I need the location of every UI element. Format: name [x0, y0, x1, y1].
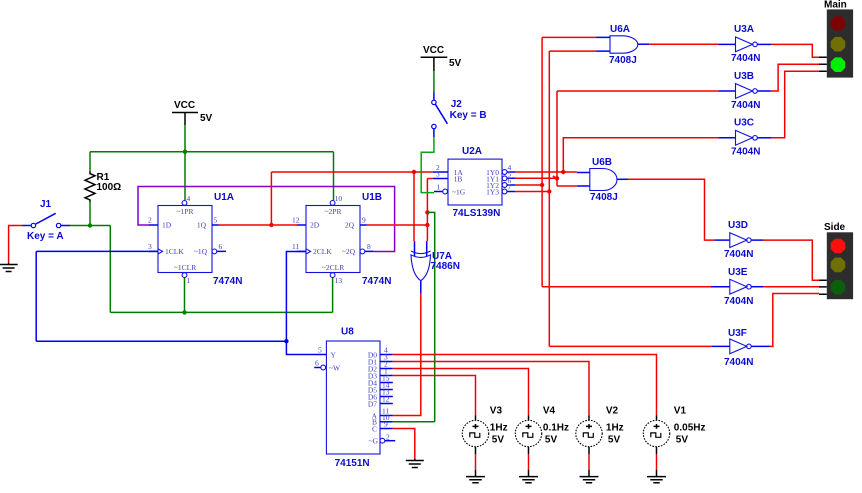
svg-text:7404N: 7404N: [731, 100, 760, 111]
and gate U6A: [597, 24, 650, 66]
wire 1Q net to 2D / 1A / XOR-A (red): [219, 172, 433, 241]
wire U3B to Main yellow lamp: [771, 64, 819, 91]
power VCC2 symbol: [421, 45, 462, 71]
wire J2 to ~1G (bright green): [421, 137, 434, 192]
traffic light Main: [819, 0, 853, 78]
ground at U8: [406, 459, 424, 468]
svg-text:5V: 5V: [492, 435, 505, 446]
svg-text:~1PR: ~1PR: [177, 207, 194, 216]
svg-text:U2A: U2A: [462, 146, 482, 157]
wire 2Q net to 1B / XOR-B (red): [367, 179, 433, 242]
svg-text:7404N: 7404N: [724, 296, 753, 307]
svg-text:1D: 1D: [162, 221, 172, 230]
wire U3D to Side red lamp: [763, 240, 819, 280]
svg-text:7474N: 7474N: [213, 276, 242, 287]
svg-text:~1CLR: ~1CLR: [174, 263, 196, 272]
svg-text:Y: Y: [331, 350, 337, 359]
node B-select branch junction: [425, 210, 429, 214]
wire U6A out to U3A (red): [649, 43, 718, 45]
svg-text:VCC: VCC: [423, 45, 444, 56]
svg-text:5V: 5V: [676, 435, 689, 446]
svg-text:5: 5: [318, 346, 322, 355]
svg-text:~G: ~G: [369, 437, 379, 446]
svg-text:0.1Hz: 0.1Hz: [543, 423, 569, 434]
svg-text:U3E: U3E: [728, 267, 748, 278]
svg-text:~1G: ~1G: [452, 187, 466, 196]
svg-text:1CLK: 1CLK: [165, 247, 184, 256]
inverter U3C: [718, 118, 771, 158]
svg-text:6: 6: [219, 242, 223, 251]
wire R1 bottom to J1 node (green): [89, 201, 91, 226]
inverter U3F: [712, 328, 770, 368]
switch J2: [432, 92, 487, 137]
svg-text:U6B: U6B: [592, 157, 612, 168]
xor gate U7A: [411, 241, 460, 294]
svg-text:7408J: 7408J: [609, 55, 637, 66]
node 1Y3 junction: [547, 189, 551, 193]
wire U3F to Side green lamp: [770, 294, 820, 347]
flip-flop U1B body: [292, 192, 391, 287]
svg-text:U1B: U1B: [362, 192, 382, 203]
svg-text:7404N: 7404N: [724, 249, 753, 260]
power VCC1 symbol: [172, 100, 213, 125]
ground at J1: [0, 263, 18, 272]
svg-text:VCC: VCC: [174, 100, 195, 111]
svg-text:Side: Side: [824, 222, 846, 233]
clock source V2: [576, 406, 624, 483]
svg-text:12: 12: [292, 216, 300, 225]
wire 1Y2 net to U6A.in1 / U3E (red): [515, 37, 711, 286]
wire U6B out to U3D (red): [628, 179, 715, 240]
svg-text:13: 13: [335, 276, 343, 285]
wire J1 left to ground (red): [9, 226, 23, 263]
wire ~2Q to 1D (purple): [138, 187, 395, 252]
svg-text:U1A: U1A: [214, 192, 234, 203]
svg-text:U3B: U3B: [734, 71, 754, 82]
svg-text:5V: 5V: [545, 435, 558, 446]
wire U3A to Main red lamp: [771, 44, 819, 57]
wire VCC1 net (green): [90, 125, 334, 200]
svg-text:V1: V1: [674, 406, 687, 417]
svg-text:7404N: 7404N: [724, 357, 753, 368]
svg-text:J2: J2: [451, 99, 463, 110]
wire U3E to Side yellow lamp: [763, 286, 819, 288]
node 2Q junction: [425, 223, 429, 227]
svg-text:1Y3: 1Y3: [486, 187, 499, 196]
svg-text:6: 6: [315, 359, 319, 368]
svg-text:U8: U8: [341, 327, 354, 338]
svg-text:100Ω: 100Ω: [97, 182, 122, 193]
svg-text:7404N: 7404N: [731, 53, 760, 64]
wire D0 to V1 (red): [393, 355, 657, 416]
svg-text:5V: 5V: [200, 113, 213, 124]
svg-text:5V: 5V: [608, 435, 621, 446]
svg-text:2: 2: [386, 433, 390, 442]
wire 1Y1 jog: [553, 176, 557, 179]
svg-text:7486N: 7486N: [431, 261, 460, 272]
svg-text:9: 9: [362, 216, 366, 225]
svg-text:1: 1: [437, 183, 441, 192]
svg-text:5: 5: [214, 216, 218, 225]
clock source V4: [515, 406, 569, 483]
node 1Y1 junction: [555, 176, 559, 180]
decoder U2A body: [433, 146, 515, 219]
wire J1 right contact to clear net (green): [70, 226, 333, 313]
svg-text:Key = B: Key = B: [450, 110, 487, 121]
svg-text:7: 7: [508, 183, 512, 192]
svg-text:2: 2: [148, 216, 152, 225]
svg-text:2Q: 2Q: [345, 221, 355, 230]
flip-flop U1A body: [148, 192, 242, 287]
svg-text:~2Q: ~2Q: [342, 247, 356, 256]
svg-text:7408J: 7408J: [590, 192, 618, 203]
node VCC1 junction: [183, 150, 187, 154]
svg-text:4: 4: [187, 194, 191, 203]
svg-text:3: 3: [148, 242, 152, 251]
inverter U3B: [718, 71, 771, 111]
node 1Y0 junction: [561, 170, 565, 174]
svg-text:~1Q: ~1Q: [194, 247, 208, 256]
svg-text:Key = A: Key = A: [27, 231, 64, 242]
clock source V3: [462, 406, 507, 483]
svg-text:8: 8: [367, 242, 371, 251]
inverter U3A: [718, 24, 771, 64]
svg-text:74LS139N: 74LS139N: [453, 208, 501, 219]
svg-text:7404N: 7404N: [731, 147, 760, 158]
wire D1 to V2 (red): [393, 362, 589, 416]
svg-text:~2CLR: ~2CLR: [322, 263, 344, 272]
node Y feedback junction: [284, 339, 288, 343]
svg-text:V4: V4: [543, 406, 556, 417]
svg-text:~2PR: ~2PR: [325, 207, 342, 216]
svg-text:2D: 2D: [310, 221, 320, 230]
svg-text:V2: V2: [606, 406, 619, 417]
svg-text:~W: ~W: [329, 363, 341, 372]
inverter U3D: [715, 220, 763, 260]
node 1Y2 junction: [540, 183, 544, 187]
svg-text:10: 10: [335, 194, 343, 203]
resistor R1: [85, 171, 121, 202]
svg-text:74151N: 74151N: [335, 458, 370, 469]
wire 1Y1 net to U3B / U6B.in2 (red): [515, 91, 718, 186]
wire 1Y0 net to U6B.in1 / U3C (red): [515, 138, 718, 172]
svg-text:Main: Main: [824, 0, 847, 11]
node 1A-XOR junction: [412, 170, 416, 174]
wire XOR output to U8 pin A (red): [393, 294, 421, 416]
svg-text:J1: J1: [40, 199, 52, 210]
node 1Q-2D junction: [269, 223, 273, 227]
wire U3C to Main green lamp: [771, 71, 819, 138]
svg-text:1Hz: 1Hz: [606, 423, 624, 434]
wire 1CLK/2CLK feedback from U8 Y (blue): [36, 251, 326, 354]
wire VCC2 to J2 (green): [433, 71, 435, 92]
node R1/J1 junction: [88, 223, 92, 227]
inverter U3E: [711, 267, 763, 307]
node clear net junction: [182, 310, 186, 314]
svg-text:12: 12: [382, 395, 390, 404]
svg-text:9: 9: [384, 420, 388, 429]
svg-text:U3D: U3D: [728, 220, 748, 231]
svg-text:1: 1: [187, 276, 191, 285]
svg-text:1Q: 1Q: [197, 221, 207, 230]
svg-text:1Hz: 1Hz: [490, 423, 508, 434]
wire B select to U8 pin10 (dark green): [393, 212, 435, 421]
svg-text:2CLK: 2CLK: [313, 247, 332, 256]
wire D2 to V4 (red): [393, 369, 529, 416]
svg-text:U6A: U6A: [610, 24, 630, 35]
svg-text:D7: D7: [368, 399, 377, 408]
clock source V1: [643, 406, 705, 483]
wire 1Y3 net to U6A.in2 / U3F (red): [515, 51, 712, 346]
and gate U6B: [577, 157, 628, 203]
svg-text:U3A: U3A: [734, 24, 754, 35]
svg-text:1B: 1B: [454, 174, 463, 183]
svg-text:3: 3: [436, 170, 440, 179]
wire D3 to V3 (red): [393, 376, 476, 416]
multiplexer U8 body: [314, 327, 395, 470]
svg-text:U3C: U3C: [734, 118, 754, 129]
svg-text:0.05Hz: 0.05Hz: [674, 423, 706, 434]
svg-text:V3: V3: [490, 406, 503, 417]
svg-text:U3F: U3F: [728, 328, 747, 339]
svg-text:11: 11: [292, 242, 299, 251]
svg-text:5V: 5V: [449, 58, 462, 69]
svg-text:7474N: 7474N: [362, 276, 391, 287]
traffic light Side: [819, 222, 853, 299]
svg-text:C: C: [372, 424, 377, 433]
switch J1: [23, 199, 71, 242]
wire U8 C to ground (red): [393, 429, 415, 459]
